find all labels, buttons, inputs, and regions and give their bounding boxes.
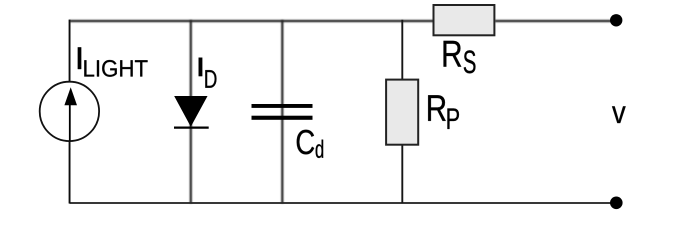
label v output — [612, 106, 626, 123]
wire top rail left of RS — [70, 20, 434, 22]
label ILIGHT main I — [78, 47, 81, 69]
resistor RS body — [434, 5, 495, 35]
wire RP branch lower — [401, 145, 403, 204]
diode D1 — [174, 97, 209, 128]
wire bottom rail — [70, 202, 617, 204]
label Cd main C — [297, 130, 314, 155]
terminal node top — [610, 14, 622, 26]
capacitor Cd plates — [252, 104, 313, 120]
wire left branch upper segment — [69, 20, 71, 82]
label ID subscript — [205, 70, 216, 88]
wire RP branch upper — [401, 20, 403, 80]
label ID main I — [199, 58, 203, 77]
label ILIGHT subscript — [84, 60, 147, 77]
wire top rail right of RS — [495, 20, 617, 22]
label RS subscript — [464, 50, 476, 73]
label Cd subscript — [316, 140, 324, 158]
label RP subscript — [447, 108, 459, 129]
label RS main R — [444, 41, 462, 67]
wire capacitor branch — [281, 20, 283, 203]
label RP main R — [428, 95, 446, 121]
resistor RP body — [386, 80, 418, 145]
wire diode branch — [190, 20, 192, 203]
wire left branch lower segment — [69, 141, 71, 204]
terminal node bottom — [610, 197, 623, 210]
current source U1 circle — [40, 82, 99, 141]
